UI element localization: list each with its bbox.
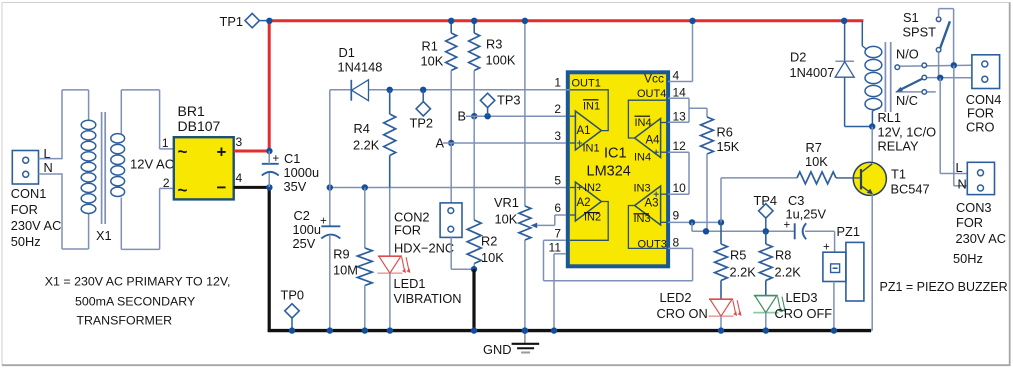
transformer X1 primary winding <box>81 120 96 213</box>
relay pole row <box>922 75 972 80</box>
LED LED2 <box>709 299 742 334</box>
svg-text:A4: A4 <box>646 135 661 147</box>
label LM324 <box>587 164 631 180</box>
wire CON1 L to primary <box>39 90 63 159</box>
svg-text:RELAY: RELAY <box>878 139 919 154</box>
label CON3 FOR 230V AC 50Hz <box>953 200 1006 266</box>
svg-text:R5: R5 <box>730 248 746 263</box>
svg-text:A1: A1 <box>577 125 591 137</box>
relay pole blade <box>896 79 923 93</box>
label R4 2.2K <box>353 121 380 153</box>
svg-text:IN4: IN4 <box>634 152 651 164</box>
svg-text:TRANSFORMER: TRANSFORMER <box>76 314 172 328</box>
op-amp A3 <box>628 183 666 251</box>
piezo buzzer PZ1 <box>823 224 864 334</box>
svg-text:5: 5 <box>554 174 561 188</box>
svg-text:OUT1: OUT1 <box>572 78 601 90</box>
node R3 top <box>471 18 477 24</box>
BR1 plus terminal <box>217 143 227 162</box>
svg-text:PZ1: PZ1 <box>837 224 860 239</box>
svg-text:IN3: IN3 <box>634 213 651 225</box>
svg-text:2.2K: 2.2K <box>353 138 380 153</box>
svg-text:50Hz: 50Hz <box>11 234 41 249</box>
svg-text:~: ~ <box>178 142 188 161</box>
wire collector riser <box>871 127 873 165</box>
svg-text:BC547: BC547 <box>891 182 930 197</box>
label R7 10K <box>805 140 828 169</box>
pin number 3 <box>554 129 561 143</box>
wire CON2 to R2 bottom node <box>451 237 474 269</box>
svg-text:+: + <box>320 216 327 228</box>
wire pin11 to ground <box>551 254 566 334</box>
node R9 top <box>362 184 368 190</box>
node pin9 right <box>718 219 724 225</box>
svg-text:25V: 25V <box>293 236 316 251</box>
wire black drop to ground rail <box>268 186 271 332</box>
svg-text:35V: 35V <box>284 179 307 194</box>
pin number 11 <box>549 241 562 255</box>
svg-text:+: + <box>217 143 227 162</box>
test point TP1 <box>220 13 273 29</box>
capacitor C1 <box>262 151 319 187</box>
VR1 wiper arrow <box>531 215 555 228</box>
svg-text:14: 14 <box>673 86 687 100</box>
svg-text:230V AC: 230V AC <box>956 231 1007 246</box>
node C2 top <box>327 184 333 190</box>
svg-text:OUT4: OUT4 <box>637 88 666 100</box>
label 35V of C1 <box>284 179 307 194</box>
label LED2 CRO ON <box>657 290 708 321</box>
svg-text:1u,25V: 1u,25V <box>786 207 827 222</box>
wire A down to CON2 <box>450 143 452 203</box>
resistor R6 <box>701 108 714 231</box>
svg-text:12: 12 <box>673 139 687 153</box>
svg-text:CRO OFF: CRO OFF <box>775 306 833 321</box>
node C1 bottom <box>266 184 272 190</box>
label L (CON3) <box>956 160 963 175</box>
wire pin7-pin8 bottom link <box>544 248 693 280</box>
op-amp A4 <box>628 88 666 164</box>
svg-text:R3: R3 <box>486 37 502 52</box>
pin number 6 <box>554 201 561 215</box>
wire BR1 + output (red) <box>234 150 270 153</box>
resistor R3 <box>469 21 480 116</box>
svg-text:L: L <box>956 160 963 175</box>
svg-text:7: 7 <box>554 227 561 241</box>
node D1-R4 junction <box>387 87 393 93</box>
relay N/C row <box>896 90 936 95</box>
svg-text:230V AC: 230V AC <box>11 218 62 233</box>
node S1-pole junction <box>937 75 943 81</box>
svg-text:IN2: IN2 <box>584 182 601 194</box>
pin number 10 <box>673 181 687 195</box>
ground GND <box>483 327 539 357</box>
label LED3 CRO OFF <box>775 290 833 321</box>
resistor R5 <box>715 222 728 299</box>
svg-text:FOR: FOR <box>394 223 421 238</box>
svg-text:10M: 10M <box>333 263 358 278</box>
svg-text:4: 4 <box>236 171 243 185</box>
svg-text:TP3: TP3 <box>497 93 520 108</box>
wire pin4 Vcc riser <box>668 18 696 82</box>
IC IC1 LM324 body <box>568 72 668 266</box>
connector CON2 box <box>440 203 462 238</box>
svg-text:C2: C2 <box>294 208 310 223</box>
label T1 BC547 <box>891 167 930 197</box>
wire thick black to ground rail <box>471 269 477 334</box>
label CON2 FOR HDX-2NC <box>394 210 454 256</box>
connector CON4 box <box>972 55 1000 89</box>
wire CON1 N to primary <box>39 173 63 249</box>
svg-text:VR1: VR1 <box>494 195 519 210</box>
pin number 4 <box>673 69 680 83</box>
svg-text:2: 2 <box>554 102 561 116</box>
svg-text:T1: T1 <box>891 167 906 182</box>
svg-text:R9: R9 <box>333 247 349 262</box>
transformer X1 core <box>102 112 106 224</box>
svg-text:N: N <box>44 160 53 175</box>
label CON4 FOR CRO <box>966 92 1002 135</box>
pin number 2 <box>554 102 561 116</box>
diode D2 <box>835 18 872 127</box>
wire pin14-pin13 link <box>668 98 689 122</box>
svg-text:Vcc: Vcc <box>644 72 664 86</box>
label 12V AC <box>130 157 174 172</box>
label R1 10K <box>421 39 444 69</box>
svg-text:IN3: IN3 <box>634 183 651 195</box>
svg-text:FOR: FOR <box>956 215 983 230</box>
svg-text:10K: 10K <box>495 212 518 227</box>
node R1 top <box>448 18 454 24</box>
svg-text:IN1: IN1 <box>583 143 600 155</box>
svg-text:1000u: 1000u <box>284 165 320 180</box>
svg-text:1: 1 <box>554 76 561 90</box>
wire node B row to IC pin2 <box>466 115 566 117</box>
svg-text:100K: 100K <box>486 53 516 68</box>
node R2-CON2 junction <box>471 266 477 272</box>
svg-text:N/O: N/O <box>896 47 919 62</box>
pin number 7 <box>554 227 561 241</box>
svg-text:50Hz: 50Hz <box>953 251 983 266</box>
svg-text:3: 3 <box>236 135 243 149</box>
svg-text:X1: X1 <box>96 228 112 243</box>
node C1 top <box>266 148 272 154</box>
node S1-NO junction <box>951 62 957 68</box>
svg-text:FOR: FOR <box>11 202 38 217</box>
note X1 transformer spec <box>45 275 231 328</box>
wire pin1 row (D1 anode to IC pin1) <box>330 89 566 91</box>
node relay-D2-collector <box>869 123 875 129</box>
svg-text:2.2K: 2.2K <box>775 264 802 279</box>
op-amp A2 <box>570 182 608 240</box>
label D2 1N4007 <box>790 50 835 81</box>
svg-text:3: 3 <box>554 129 561 143</box>
svg-text:S1: S1 <box>903 10 919 25</box>
label IC1 <box>604 146 627 162</box>
BR1 minus terminal <box>217 178 227 197</box>
wire N/O to CON3 N <box>954 65 968 186</box>
capacitor C3 <box>784 193 835 239</box>
svg-text:VIBRATION: VIBRATION <box>394 291 462 306</box>
svg-text:CON3: CON3 <box>956 200 992 215</box>
pin number 5 <box>554 174 561 188</box>
svg-text:11: 11 <box>549 241 562 255</box>
svg-text:LED3: LED3 <box>786 290 818 305</box>
relay contact N/O row <box>895 63 972 69</box>
svg-text:10K: 10K <box>481 250 504 265</box>
svg-text:6: 6 <box>554 201 561 215</box>
label R2 10K <box>481 234 504 266</box>
svg-text:R8: R8 <box>775 248 791 263</box>
label CON1 FOR 230V AC 50Hz <box>11 186 62 249</box>
resistor R7 <box>797 172 836 184</box>
svg-text:R6: R6 <box>717 125 733 140</box>
svg-text:1N4148: 1N4148 <box>338 60 383 75</box>
resistor R8 <box>759 231 772 295</box>
wire node A row to IC pin3 <box>443 142 566 144</box>
label Vcc <box>644 72 664 86</box>
transformer X1 secondary winding <box>111 134 125 197</box>
wire pin9 row <box>668 221 721 223</box>
svg-text:8: 8 <box>673 236 680 250</box>
svg-text:13: 13 <box>673 110 687 124</box>
svg-text:TP1: TP1 <box>220 14 243 29</box>
svg-text:BR1: BR1 <box>178 103 205 119</box>
svg-text:10: 10 <box>673 181 687 195</box>
svg-text:X1 = 230V AC PRIMARY TO 12V,: X1 = 230V AC PRIMARY TO 12V, <box>45 275 231 289</box>
wire IC pin1 stub <box>566 89 570 91</box>
svg-text:LM324: LM324 <box>587 164 631 180</box>
switch S1 <box>903 9 954 78</box>
svg-text:IC1: IC1 <box>604 146 627 162</box>
svg-text:CRO: CRO <box>966 120 994 135</box>
label R6 15K <box>717 125 740 155</box>
svg-text:IN4: IN4 <box>635 117 652 129</box>
wire primary top <box>62 90 89 121</box>
wire emitter to ground rail <box>871 194 873 331</box>
label R9 10M <box>333 247 358 278</box>
transistor T1 <box>836 162 886 195</box>
test point TP3 <box>480 93 520 120</box>
pin 2 (BR1 ac input) <box>160 176 174 190</box>
pin number 1 <box>554 76 561 90</box>
pin number 8 <box>673 236 680 250</box>
wire +12V top rail (red) <box>268 19 864 22</box>
label N/O <box>896 47 919 62</box>
svg-text:N/C: N/C <box>896 93 918 108</box>
svg-text:D2: D2 <box>790 50 806 65</box>
node B <box>458 109 478 124</box>
wire secondary top <box>121 90 159 149</box>
wire link to R6 <box>689 107 707 109</box>
svg-text:B: B <box>458 109 467 124</box>
wire R4 to LED1 (crossing) <box>389 188 391 257</box>
svg-text:2.2K: 2.2K <box>730 264 757 279</box>
svg-text:R1: R1 <box>422 39 438 54</box>
ground rail (black) <box>268 329 872 332</box>
svg-text:1N4007: 1N4007 <box>790 65 835 80</box>
svg-text:OUT3: OUT3 <box>638 239 667 251</box>
wire BR1 - output (black) <box>234 186 271 189</box>
svg-text:500mA SECONDARY: 500mA SECONDARY <box>75 295 195 309</box>
note PZ1 piezo buzzer <box>880 280 1008 294</box>
wire pin9 drop to lower bus <box>692 222 795 231</box>
test point TP2 <box>410 87 433 131</box>
svg-text:RL1: RL1 <box>878 110 901 125</box>
label N (CON1 neutral) <box>44 160 53 175</box>
svg-text:100u: 100u <box>293 222 321 237</box>
svg-text:C1: C1 <box>284 151 300 166</box>
svg-text:CON1: CON1 <box>11 186 47 201</box>
resistor R4 <box>384 90 396 188</box>
op-amp A1 <box>570 78 608 155</box>
BR1 ac symbol bottom <box>178 181 188 200</box>
bridge rectifier BR1 box <box>174 137 234 199</box>
svg-text:R7: R7 <box>806 140 822 155</box>
wire pin12-pin10 link <box>668 152 689 194</box>
pin number 14 <box>673 86 687 100</box>
svg-text:HDX−2NC: HDX−2NC <box>394 241 454 256</box>
label RL1 12V 1C/O RELAY <box>878 110 937 154</box>
svg-text:R2: R2 <box>481 234 497 249</box>
relay core <box>885 42 890 112</box>
svg-text:A3: A3 <box>645 198 659 210</box>
svg-text:12V, 1C/O: 12V, 1C/O <box>878 125 937 140</box>
wire pin8 out <box>668 247 693 249</box>
label BR1 DB107 <box>178 103 221 134</box>
svg-text:1: 1 <box>162 136 169 150</box>
capacitor C2 <box>293 188 341 334</box>
svg-text:4: 4 <box>673 69 680 83</box>
test point TP0 <box>281 288 304 334</box>
LED LED1 <box>377 256 410 334</box>
pin number 9 <box>673 209 680 223</box>
svg-text:LED2: LED2 <box>660 290 692 305</box>
svg-text:~: ~ <box>178 181 188 200</box>
test point TP4 <box>754 193 777 235</box>
wire pin6 to VR1 wiper <box>555 214 566 216</box>
svg-text:GND: GND <box>483 342 511 357</box>
svg-text:15K: 15K <box>717 139 740 154</box>
resistor R2 <box>467 116 481 269</box>
svg-text:D1: D1 <box>339 45 355 60</box>
label N (CON3) <box>958 177 967 192</box>
pin 1 (BR1 ac input) <box>160 136 174 150</box>
label LED1 VIBRATION <box>394 276 462 306</box>
wire red riser to top rail <box>268 21 271 153</box>
label VR1 10K <box>494 195 519 227</box>
pin 3 label <box>236 135 243 149</box>
potentiometer VR1 <box>519 206 531 334</box>
label R8 2.2K <box>775 248 802 280</box>
wire primary bottom <box>62 214 89 250</box>
wire minus bus to IC pin5 <box>330 187 566 189</box>
connector CON3 box <box>967 162 994 194</box>
svg-text:PZ1 = PIEZO BUZZER: PZ1 = PIEZO BUZZER <box>880 280 1008 294</box>
svg-text:DB107: DB107 <box>178 118 221 134</box>
resistor R9 <box>357 188 372 334</box>
wire VR1 column from +rail <box>522 18 528 206</box>
label D1 1N4148 <box>338 45 383 75</box>
svg-text:12V AC: 12V AC <box>130 157 174 172</box>
svg-text:10K: 10K <box>805 154 828 169</box>
svg-text:+: + <box>273 153 280 165</box>
svg-text:10K: 10K <box>421 54 444 69</box>
pin number 13 <box>673 110 687 124</box>
wire pole to CON3 L <box>940 78 967 174</box>
svg-text:R4: R4 <box>354 121 370 136</box>
label R5 2.2K <box>730 248 757 280</box>
node R6 bottom <box>703 228 709 234</box>
pin 4 label <box>236 171 243 185</box>
svg-text:IN2: IN2 <box>584 212 601 224</box>
svg-text:A2: A2 <box>577 197 591 209</box>
svg-text:+: + <box>784 220 791 232</box>
resistor R1 <box>446 21 457 143</box>
node A <box>436 136 455 151</box>
label X1 <box>96 228 112 243</box>
svg-text:IN1: IN1 <box>583 101 600 113</box>
BR1 ac symbol top <box>178 142 188 161</box>
wire riser to R7 <box>721 178 797 223</box>
svg-text:TP2: TP2 <box>410 116 433 131</box>
label L (CON1 live) <box>44 146 51 161</box>
svg-text:SPST: SPST <box>903 25 937 40</box>
svg-text:−: − <box>217 178 227 197</box>
wire pin7 out <box>544 240 566 280</box>
pin number 12 <box>673 139 687 153</box>
svg-text:FOR: FOR <box>967 106 994 121</box>
svg-text:N: N <box>958 177 967 192</box>
wire branch up to D1 <box>329 90 331 188</box>
label R3 100K <box>486 37 516 68</box>
svg-text:CRO ON: CRO ON <box>657 306 708 321</box>
diode D1 <box>351 80 368 101</box>
LED LED3 <box>753 296 786 334</box>
label N/C <box>896 93 918 108</box>
node pin9 left <box>689 219 695 225</box>
svg-text:9: 9 <box>673 209 680 223</box>
relay RL1 coil <box>862 21 882 127</box>
svg-text:TP0: TP0 <box>281 288 304 303</box>
wire secondary bottom <box>121 188 159 249</box>
svg-text:LED1: LED1 <box>394 276 426 291</box>
connector CON1 box <box>12 151 38 185</box>
